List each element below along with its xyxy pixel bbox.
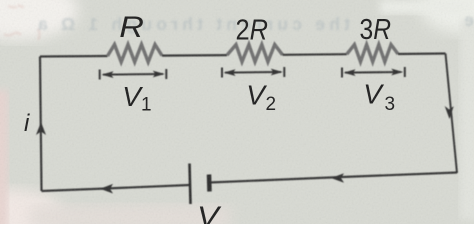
current arrow up on left wire: [36, 122, 46, 135]
wire between R2 and R3: [283, 53, 347, 56]
resistor R2: [227, 45, 283, 62]
wire left side: [40, 57, 42, 192]
V1 measurement arrow: [100, 69, 167, 80]
current arrow left on bottom wire (right): [331, 173, 344, 183]
battery long plate: [190, 164, 191, 205]
wire bottom-left to battery: [42, 185, 190, 191]
wire right side: [446, 54, 458, 174]
resistor R3: [347, 45, 398, 62]
current arrow down on right wire: [445, 106, 454, 119]
resistor R1: [108, 45, 163, 63]
wire battery to bottom-right: [210, 173, 458, 183]
bleed-through mirrored text from reverse page: [38, 10, 474, 34]
circuit drawing: [36, 45, 457, 205]
V2 measurement arrow: [222, 67, 284, 78]
wire top-left segment: [40, 55, 108, 58]
battery short plate: [207, 175, 212, 192]
current arrow left on bottom wire (left): [100, 184, 113, 194]
faint pink offset-print marks (top-left corner): [4, 5, 40, 40]
wire between R1 and R2: [162, 54, 227, 57]
V3 measurement arrow: [342, 67, 405, 78]
wire top-right segment: [398, 52, 446, 55]
